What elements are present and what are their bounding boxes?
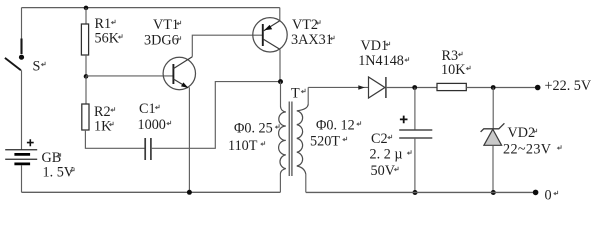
resistor R2 [82,104,89,130]
capacitor C1 plate right [150,138,152,160]
transistor VT1 emitter line [173,79,188,88]
svg-text:VT1: VT1 [153,17,179,33]
node: collector-primary junction dot [278,79,283,84]
wire: R2 bottom lead to C1 [85,130,145,148]
transformer T secondary top lead [307,87,309,104]
transistor VT1 collector line [173,57,192,69]
wire: C2 bottom lead [414,138,416,192]
svg-text:C1: C1 [139,101,156,117]
node: base bias junction dot [84,74,89,79]
svg-text:Φ0. 12: Φ0. 12 [316,117,355,133]
transformer T core line 2 [291,102,293,177]
wire: C1 right to feedback node (crosses emitter wire) [151,82,279,149]
transistor VT2 base bar [262,24,264,46]
svg-text:50V: 50V [371,163,396,179]
switch S fixed lead [20,39,22,55]
svg-text:1K: 1K [94,118,112,134]
battery plus sign [27,139,34,146]
svg-text:Φ0. 25: Φ0. 25 [234,121,273,137]
svg-text:+22. 5V: +22. 5V [545,78,592,94]
transformer T primary top lead [280,82,282,107]
transformer T secondary bottom lead [305,174,307,192]
node: emitter-ground junction dot [187,190,192,195]
transistor VT2 collector line [263,39,280,50]
wire: R1 bottom lead [85,55,87,76]
current direction arrow before VD1 [358,85,365,90]
svg-text:VD1: VD1 [361,38,389,54]
node: 0V terminal dot [533,190,539,196]
svg-text:C2: C2 [371,131,388,147]
transistor VT2 emitter arrowhead (PNP, points to base) [264,25,272,30]
wire: VT1 collector to VT2 base [192,35,262,57]
resistor R3 [437,83,466,90]
diode VD1 triangle [369,77,385,98]
svg-text:2. 2 µ: 2. 2 µ [370,147,403,163]
svg-text:56K: 56K [95,31,120,47]
battery GB plate long 2 [5,158,37,160]
node: R1 top junction dot [84,6,89,11]
node: VD2 ground junction dot [491,190,496,195]
transformer T primary winding [279,107,286,174]
diode VD1 cathode bar [385,77,387,98]
zener VD2 triangle (gray filled) [484,129,502,145]
svg-text:3DG6: 3DG6 [144,33,179,49]
capacitor C2 plate bottom [399,137,432,139]
node: +22.5V terminal dot [535,85,541,91]
transistor VT1 base bar [172,64,174,84]
wire: C2 top lead [414,88,416,130]
svg-text:1000: 1000 [138,117,166,133]
wire: secondary to VD1 [308,86,368,88]
zener VD2 cathode bar with bent ends [481,123,505,132]
node: C2 junction dot [412,85,417,90]
wire: left rail lower (switch to battery) [21,70,23,149]
wire: VD1 to R3 [386,87,437,89]
wire: battery to bottom-left rail [21,165,23,192]
battery GB plate short thick 1 [14,153,30,156]
svg-text:1. 5V: 1. 5V [43,164,75,180]
switch S contact dot [19,55,24,60]
wire: R1 top lead [85,8,87,24]
battery GB plate long 1 [5,149,37,151]
wire: top rail [22,7,280,9]
wire: VT2 collector to primary node [279,49,281,81]
wire: R3 to +22.5V terminal [466,87,537,89]
transistor VT2 circle [253,18,287,52]
capacitor C1 plate left [144,138,146,160]
switch S lever [5,58,21,70]
transformer T core line 1 [288,102,290,177]
wire: left rail upper (top corner to switch) [21,8,23,39]
node: VD2 top junction dot [491,85,496,90]
transistor VT1 circle [163,57,195,89]
transformer T secondary winding [297,104,308,174]
transformer T primary bottom lead [279,174,281,193]
capacitor C2 plus sign [400,116,408,124]
svg-text:0: 0 [545,187,552,203]
svg-text:1N4148: 1N4148 [358,53,404,69]
capacitor C2 plate top [399,129,432,131]
svg-text:VT2: VT2 [292,17,318,33]
svg-text:3AX31: 3AX31 [291,32,333,48]
svg-text:110T: 110T [228,138,258,154]
wire: bottom-left rail (battery ground to transformer primary) [22,191,281,193]
wire: VT1 base wire [86,75,173,77]
resistor R1 [81,24,88,55]
transistor VT2 emitter line [264,21,280,31]
wire: VD2 bottom lead [492,145,494,192]
wire: bottom-right rail (secondary ground) [306,191,536,193]
wire: top rail drop to VT2 emitter [279,8,281,21]
wire: VD2 top lead [492,88,494,130]
wire: VT1 emitter to ground rail [188,87,190,192]
wire: R2 top lead [85,76,87,104]
transistor VT1 emitter arrowhead [181,82,188,88]
node: C2 ground junction dot [413,190,418,195]
svg-text:VD2: VD2 [508,125,536,141]
battery GB plate short thick 2 [14,163,30,166]
svg-text:22~23V: 22~23V [503,141,552,157]
svg-text:10K: 10K [441,62,466,78]
svg-text:T: T [291,85,300,101]
svg-text:520T: 520T [310,133,340,149]
svg-text:S: S [33,59,41,75]
